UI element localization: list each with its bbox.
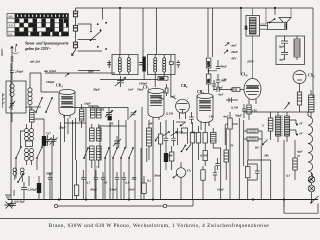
resistor chain (screen dropper, above CH1) — [206, 58, 211, 93]
svg-text:CB2: CB2 — [181, 84, 188, 89]
tube CK1 (octode mixer) — [59, 89, 75, 118]
band switch row (middle) — [84, 148, 133, 158]
switch contact (AF, left) — [182, 146, 186, 152]
small IF choke (hatched, right of resistor row) — [211, 128, 221, 148]
antenna input terminal — [11, 46, 14, 70]
wire: stage-base drop wires (left-mid band) — [61, 115, 147, 200]
svg-text:6,3: 6,3 — [286, 174, 290, 178]
svg-text:4V: 4V — [298, 122, 304, 126]
svg-text:7: 7 — [96, 166, 98, 170]
svg-text:70: 70 — [230, 144, 234, 148]
output transformer (can with winding) — [244, 8, 266, 78]
antenna coil L1 — [10, 81, 14, 100]
boxed resistor (grid leak, x=203) — [201, 166, 205, 200]
svg-text:50µF: 50µF — [46, 172, 54, 176]
svg-text:30: 30 — [100, 108, 105, 112]
svg-text:0,3M: 0,3M — [207, 61, 210, 67]
coupling capacitor 10nF — [212, 80, 216, 90]
capacitor 1nF (anode) — [216, 74, 220, 87]
boxed resistor (x=76.6, bottom) — [74, 160, 78, 200]
switch arrow (rectifier output) — [285, 103, 290, 110]
wire: CH1 anode rise — [166, 120, 209, 132]
svg-text:1M: 1M — [168, 154, 173, 158]
junction dot at screen divider — [208, 70, 210, 72]
svg-text:0,05µF: 0,05µF — [28, 188, 38, 192]
cathode resistor R (CK1) — [80, 104, 84, 128]
capacitor (tone, x=215) — [213, 166, 217, 181]
mains switch (bottom right) — [310, 196, 319, 204]
svg-text:30pF: 30pF — [92, 88, 101, 92]
separator rule — [0, 218, 320, 220]
svg-text:TA: TA — [187, 169, 191, 173]
variable capacitor (tuning gang 1) — [115, 76, 126, 87]
oscillator transformer (lower winding) — [90, 146, 102, 168]
wire: ground bus (main chassis rail) — [8, 199, 318, 201]
volume potentiometer (boxed, with arrow) — [155, 122, 163, 200]
svg-text:50nF: 50nF — [220, 65, 228, 69]
caption text — [49, 222, 270, 229]
boxed resistor row: R2 (50k) — [196, 126, 200, 160]
svg-text:220V~: 220V~ — [0, 47, 4, 57]
wire: verticals from top bus to IF strip — [120, 8, 313, 98]
electrolytic capacitor (dark, x=110) — [108, 116, 112, 121]
field-coil / tone network box — [276, 36, 305, 65]
svg-text:10nF: 10nF — [110, 188, 118, 192]
trimmer cap (can2 right) — [177, 60, 181, 68]
svg-text:3nF: 3nF — [230, 44, 237, 48]
scattered value labels (texture) — [30, 60, 304, 192]
wire: right-mid verticals — [261, 146, 271, 200]
voltage selector resistors (two boxed, stacked) — [244, 129, 262, 141]
dial lamps — [308, 173, 315, 203]
cathode bypass cap (CL4) — [242, 104, 246, 118]
tube CF1 (IF pentode) — [148, 88, 164, 120]
junction dots on top bus — [119, 7, 276, 9]
rotated scale label, far left edge — [0, 47, 4, 57]
svg-text:0,3M: 0,3M — [176, 131, 183, 135]
connector (open circle, mid) — [163, 204, 166, 207]
svg-text:0,1: 0,1 — [125, 181, 129, 185]
svg-text:30pF: 30pF — [58, 126, 67, 130]
IF transformer 1 (shield box with windings) — [112, 55, 138, 75]
IF transformer 2 (shield box with windings) — [148, 55, 176, 77]
field coil winding (in box) — [294, 36, 300, 60]
svg-text:0,1M: 0,1M — [166, 112, 173, 116]
phono pickup (circle with arrow) — [173, 162, 186, 200]
wire: mixer output — [60, 108, 128, 128]
resistor 1150 (boxed, horizontal) — [158, 77, 168, 81]
wire: grid line to CK1 — [41, 73, 158, 92]
wire: CK1 base links — [64, 123, 126, 126]
wire: mains loop bottom right — [284, 200, 318, 214]
wire: can2 to CF1 grid — [154, 76, 156, 87]
svg-text:0,5M: 0,5M — [200, 154, 207, 158]
boxed resistor (x=144, bottom) — [142, 176, 146, 200]
capacitor 4uF (in box) — [281, 49, 288, 60]
svg-text:50: 50 — [104, 181, 108, 185]
svg-text:mit 2ad: mit 2ad — [30, 60, 40, 64]
switch contacts (lower-left, phono) — [14, 174, 23, 196]
tiny value labels along bottom — [46, 172, 151, 192]
capacitor legs along bottom (plate marks) — [48, 170, 136, 200]
svg-text:50µF: 50µF — [235, 114, 243, 118]
svg-text:20nF: 20nF — [230, 50, 239, 54]
capacitor 0,05uF (left bottom) — [21, 182, 27, 200]
ground (chassis, bottom left) — [5, 195, 11, 199]
secondary tuning coil L2 — [28, 84, 32, 110]
tuned circuit coil pair (upper) — [25, 124, 34, 141]
capacitor 8uF (in box) — [281, 36, 288, 49]
trimmer cap (can1 right) — [139, 62, 143, 64]
power transformer — [276, 112, 290, 142]
svg-text:250V: 250V — [246, 60, 255, 64]
resistor (boxed, AF divider 2) — [170, 146, 174, 170]
svg-text:30nF: 30nF — [89, 188, 98, 192]
mains dropper (hatched box above transformer) — [268, 112, 273, 140]
earth symbol (bottom far left) — [4, 202, 14, 209]
smoothing resistor (below CY1) — [297, 88, 301, 112]
svg-text:0,015µF: 0,015µF — [14, 200, 26, 204]
AF coupling box (top, with arrow) — [180, 123, 188, 134]
svg-text:KW: KW — [9, 25, 14, 28]
connector (open circle, left) — [54, 204, 57, 207]
svg-text:L6: L6 — [244, 26, 248, 31]
CL4 cathode resistor (boxed) with bypass cap — [245, 160, 259, 200]
wire: transformer primary drops — [248, 131, 284, 207]
wire: diode feed line (x=171) — [169, 55, 176, 99]
wire: B+ rail (right) — [244, 112, 313, 160]
padder resistor (dark, lower-left) — [42, 136, 46, 146]
band switch (right arm) — [37, 147, 42, 158]
note arrow (points to chassis) — [13, 44, 19, 54]
svg-text:0,1M: 0,1M — [231, 106, 238, 110]
svg-text:0,1: 0,1 — [86, 181, 90, 185]
svg-text:100pF: 100pF — [46, 80, 55, 84]
tuned circuit coil pair (lower) — [25, 149, 34, 166]
switch contact dots (middle row) — [83, 147, 134, 159]
padder capacitor chain at x=75.5 — [72, 8, 78, 56]
boxed resistor (CH1 cathode, x=230) — [228, 112, 232, 200]
band switch (left arm) — [16, 147, 21, 158]
ceramic band filter block — [88, 106, 101, 118]
variable capacitor (gang 2, lower) — [44, 135, 52, 146]
switch (output tap, x=265) — [263, 140, 268, 145]
svg-text:4nF: 4nF — [217, 93, 224, 97]
capacitor+resistor (x=217 leg) — [215, 158, 219, 170]
boxed resistor row: R3 (0,5M) — [203, 122, 207, 150]
grid capacitor pair (CL4 input) — [226, 98, 238, 127]
capacitor with trimmer arrow (AGC 1) — [163, 132, 170, 147]
svg-text:40V: 40V — [230, 57, 237, 61]
svg-text:1M: 1M — [209, 115, 214, 119]
capacitor 0,015uF with label — [8, 199, 16, 207]
switch at speaker (output tap) — [270, 19, 275, 23]
svg-text:CK1: CK1 — [56, 84, 63, 89]
boxed resistor row: R1 (0,3M) — [190, 122, 194, 200]
svg-text:50nF: 50nF — [128, 188, 136, 192]
svg-text:50nF: 50nF — [137, 88, 145, 92]
wire: top supply bus — [76, 7, 314, 9]
svg-text:gelten für 220V~: gelten für 220V~ — [24, 47, 52, 51]
svg-text:10pF: 10pF — [84, 102, 92, 106]
wire: lower-middle verticals — [178, 118, 244, 200]
dropper resistors (right, x=295 & 303) — [293, 140, 297, 180]
boxed resistor (0,5M below row) — [203, 151, 207, 166]
tube CY1 (rectifier) — [293, 71, 306, 89]
variable capacitor (osc gang) — [113, 136, 121, 148]
svg-text:4V: 4V — [298, 132, 304, 136]
tube CL4 (output pentode) — [244, 79, 261, 105]
voltage table (band/measurement chart, top left) — [7, 14, 69, 37]
svg-text:2M: 2M — [221, 78, 227, 82]
svg-text:380: 380 — [263, 154, 269, 158]
wire: lower-left verticals — [11, 63, 52, 200]
switch contact (AF, right) — [187, 144, 191, 150]
trimmer cap (can1 left) — [107, 60, 111, 68]
svg-text:RG: RG — [255, 146, 260, 150]
resistor (dark, left bottom) — [37, 176, 41, 200]
svg-text:10nF: 10nF — [217, 188, 225, 192]
svg-text:1nF: 1nF — [128, 88, 134, 92]
heater winding taps — [290, 120, 297, 134]
speaker (horn + chassis) — [260, 8, 292, 29]
antenna coil box — [6, 81, 26, 113]
grid resistor (tall box, middle) — [147, 120, 152, 160]
capacitor with trimmer arrow (AGC 2) — [171, 132, 178, 147]
svg-text:0,5M: 0,5M — [230, 88, 237, 92]
svg-text:30µ: 30µ — [158, 97, 164, 101]
wave-band switch (top middle) — [78, 8, 103, 51]
svg-text:1nF: 1nF — [170, 95, 176, 99]
chassis mark (far left edge) — [3, 93, 5, 108]
decoupling resistor (dark) between IF cans — [142, 57, 145, 81]
tube CB2 (duo-diode) — [176, 99, 190, 119]
variable capacitor (gang trimmer, lower) — [50, 135, 58, 146]
svg-text:LW: LW — [8, 33, 13, 36]
trimmer capacitor (antenna) — [9, 100, 15, 110]
cathode resistor (CL4) — [247, 105, 251, 120]
oscillator transformer (middle-left, upper winding) — [90, 124, 102, 141]
svg-text:CY1: CY1 — [308, 74, 315, 79]
svg-text:30nF: 30nF — [153, 174, 162, 178]
coupling capacitor (CH1 anode to CL4 grid) — [213, 87, 244, 91]
note text "Strom- und Spannungswerte gelten fuer 220V~" — [24, 42, 69, 51]
coupling coil (bottom, two windings) — [13, 168, 24, 182]
capacitor (antenna series C) — [10, 71, 14, 80]
svg-text:517: 517 — [46, 132, 51, 136]
back-bias resistor chain (x=226) — [224, 128, 228, 180]
oscillator coil (upper, lower-left block) — [30, 107, 45, 124]
svg-text:Braun, 638W und 638 W Phono, W: Braun, 638W und 638 W Phono, Wechselstro… — [49, 222, 270, 229]
tube CH1 (triode AF) — [197, 93, 213, 126]
svg-text:50: 50 — [110, 122, 114, 126]
svg-text:250pF: 250pF — [14, 70, 24, 74]
svg-text:CL4: CL4 — [241, 73, 248, 78]
resistor (dark box, AF divider) — [164, 146, 168, 170]
choke coil (right of CY1) — [309, 90, 315, 118]
junction dots (base links) — [72, 122, 111, 127]
svg-text:4µF: 4µF — [278, 58, 285, 62]
coil shield box — [26, 141, 33, 147]
svg-text:am (2)ad: am (2)ad — [44, 69, 56, 73]
svg-text:ca: ca — [297, 154, 300, 158]
svg-text:1150: 1150 — [159, 78, 165, 81]
trimmer (oscillator padder) — [105, 108, 113, 120]
wire: antenna section links — [12, 73, 41, 122]
capacitor 50nF (screen bypass) — [209, 60, 221, 71]
switch contact dots — [90, 22, 107, 50]
svg-text:Strom- und Spannungswerte: Strom- und Spannungswerte — [25, 42, 69, 46]
svg-text:S: S — [262, 124, 264, 128]
capacitor (CB2 diode load) — [176, 112, 194, 124]
svg-text:0,2: 0,2 — [147, 179, 151, 183]
svg-text:8µF: 8µF — [279, 45, 285, 49]
capacitor 30uF (tiny box, x=163.6) — [165, 84, 168, 96]
trimmer (second, x=133) — [130, 111, 137, 118]
wire: secondary rail with connector circles — [58, 200, 193, 207]
svg-text:2M: 2M — [147, 122, 153, 126]
junction dots on ground bus — [58, 198, 285, 200]
large field coil (right edge, wavy) — [308, 112, 313, 183]
svg-text:AM: AM — [8, 16, 13, 19]
svg-text:4µF: 4µF — [296, 150, 303, 154]
wire: middle verticals to ground bus — [86, 107, 153, 200]
svg-text:50k: 50k — [191, 131, 196, 135]
band switch contacts (front end) — [36, 98, 52, 112]
